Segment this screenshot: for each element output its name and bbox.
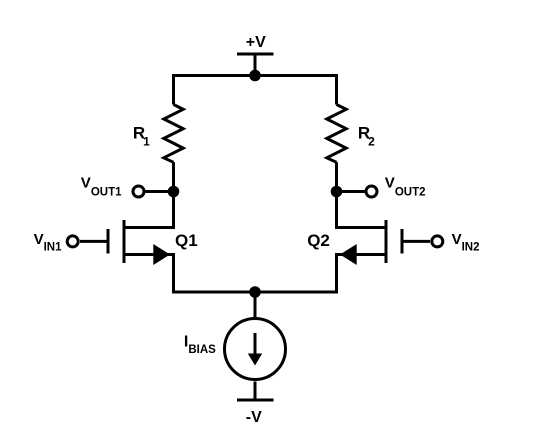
svg-text:-V: -V	[246, 409, 262, 426]
svg-text:Q1: Q1	[175, 231, 198, 250]
svg-text:+V: +V	[246, 34, 266, 51]
svg-text:Q2: Q2	[307, 231, 330, 250]
